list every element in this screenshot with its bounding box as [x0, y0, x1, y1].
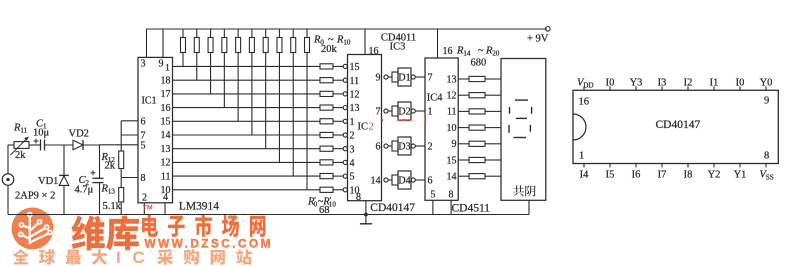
svg-text:I: I — [116, 248, 121, 266]
watermark: dianzi shichang wang — [142, 215, 158, 237]
svg-text:VD2: VD2 — [69, 129, 89, 140]
wire to display — [485, 94, 501, 96]
wire to display — [485, 175, 501, 177]
pinout bottom tick 3 — [635, 164, 637, 168]
wire IC1 output row 4 — [173, 107, 321, 109]
svg-text:4: 4 — [163, 192, 168, 203]
resistor R16 680 — [469, 109, 485, 114]
decoder IC4 CD4511 box — [425, 58, 458, 200]
svg-text:12: 12 — [161, 158, 171, 169]
signal source circle — [2, 174, 14, 186]
IC2 output bubble — [384, 75, 388, 79]
IC2 pin 16 wire — [364, 29, 366, 55]
inverter D3 — [392, 141, 398, 151]
pinout top tick 3 — [635, 86, 637, 90]
svg-text:Y1: Y1 — [734, 169, 747, 180]
watermark: dzsc logo circle — [12, 208, 54, 250]
svg-text:D2: D2 — [398, 107, 410, 118]
wire to display — [485, 78, 501, 80]
svg-text:IC: IC — [358, 122, 369, 133]
svg-text:3: 3 — [350, 144, 355, 155]
wire IC1 output row 2 — [173, 79, 321, 81]
svg-text:2: 2 — [350, 131, 355, 142]
svg-text:I0: I0 — [606, 77, 615, 88]
wire IC1 output row 6 — [173, 134, 321, 136]
IC4 pin 8 ground wire — [450, 200, 452, 214]
wire to display — [485, 159, 501, 161]
IC2 input bubble pin 11 — [343, 78, 347, 82]
inverter D2 — [392, 106, 398, 116]
resistor R'2 68 — [320, 91, 333, 96]
svg-text:18: 18 — [161, 75, 171, 86]
svg-text:15: 15 — [350, 62, 360, 73]
capacitor C1 10u — [40, 140, 42, 151]
svg-text:TM: TM — [143, 204, 153, 211]
IC2 output bubble — [384, 109, 388, 113]
svg-text:1: 1 — [428, 107, 433, 118]
svg-text:7: 7 — [428, 73, 433, 84]
IC2 input bubble pin 4 — [343, 160, 347, 164]
svg-text:8: 8 — [356, 192, 361, 203]
IC4 pin 16 wire — [437, 29, 439, 58]
svg-text:14: 14 — [447, 172, 457, 183]
pinout bottom tick 8 — [765, 164, 767, 168]
resistor R11 adjustable 2k — [8, 144, 14, 146]
wire IC1 output row 7 — [173, 148, 321, 150]
resistor R9 pull-up 20k — [292, 29, 294, 38]
IC2 output bubble — [384, 178, 388, 182]
7-segment digit — [509, 100, 532, 137]
pinout bottom tick 7 — [739, 164, 741, 168]
resistor R2 pull-up 20k — [196, 29, 198, 38]
svg-text:I8: I8 — [684, 169, 693, 180]
svg-text:D4: D4 — [398, 176, 410, 187]
svg-text:9: 9 — [452, 139, 457, 150]
svg-text:Y3: Y3 — [630, 77, 643, 88]
resistor R18 680 — [469, 141, 485, 146]
resistor R10 pull-up 20k — [306, 29, 308, 38]
wire D1 to IC4 — [415, 76, 425, 78]
svg-text:2k: 2k — [105, 161, 116, 172]
svg-text:680: 680 — [471, 58, 487, 69]
IC2 output bubble — [384, 144, 388, 148]
wire IC1 output row 1 — [173, 65, 321, 67]
resistor R4 pull-up 20k — [223, 29, 225, 38]
svg-text:VD1: VD1 — [38, 176, 58, 187]
pinout bottom tick 2 — [609, 164, 611, 168]
inverter D1 — [392, 72, 398, 82]
IC2 input bubble pin 12 — [343, 92, 347, 96]
IC1 pin 6 stub — [121, 120, 138, 122]
svg-text:1: 1 — [165, 63, 170, 73]
svg-text:10: 10 — [447, 123, 457, 134]
pinout top tick 6 — [713, 86, 715, 90]
pinout top tick 4 — [661, 86, 663, 90]
svg-text:I6: I6 — [632, 169, 641, 180]
svg-text:Y0: Y0 — [760, 77, 773, 88]
pinout top tick 7 — [739, 86, 741, 90]
wire D2 to IC4 — [415, 110, 425, 112]
diode VD1 2AP9x2 — [63, 145, 65, 176]
svg-text:WWW.DZSC.COM: WWW.DZSC.COM — [145, 237, 273, 251]
svg-text:Y2: Y2 — [708, 169, 721, 180]
resistor R20 680 — [469, 174, 485, 179]
+9V supply rail — [146, 28, 547, 30]
resistor R'9 68 — [320, 187, 333, 192]
resistor R15 680 — [469, 93, 485, 98]
resistor R1 pull-up 20k — [182, 29, 184, 38]
svg-text:D1: D1 — [398, 73, 410, 84]
resistor R'3 68 — [320, 105, 333, 110]
IC1 pin 9 wire — [162, 29, 164, 57]
IC2 input bubble pin 2 — [343, 133, 347, 137]
resistor R'0 68 — [320, 64, 333, 69]
svg-text:12: 12 — [447, 91, 457, 102]
resistor R13 5.1k — [119, 188, 124, 203]
red dash marks near D2 — [382, 114, 425, 122]
display common cathode wire — [528, 200, 530, 214]
pinout top tick 2 — [609, 86, 611, 90]
IC1 pin 3 wire — [146, 29, 148, 57]
svg-text:8: 8 — [449, 190, 454, 201]
svg-text:2k: 2k — [15, 150, 26, 161]
wire D4 to IC4 — [415, 179, 425, 181]
svg-text:9: 9 — [159, 59, 164, 70]
ground symbol — [360, 223, 372, 225]
svg-text:I2: I2 — [684, 77, 693, 88]
svg-text:C: C — [133, 248, 145, 266]
svg-text:~: ~ — [478, 46, 484, 57]
watermark: weiku big characters — [71, 215, 104, 250]
svg-text:CD40147: CD40147 — [656, 119, 701, 131]
resistor R7 pull-up 20k — [265, 29, 267, 38]
resistor R'1 68 — [320, 78, 333, 83]
pinout top tick 5 — [687, 86, 689, 90]
wire IC1 output row 5 — [173, 120, 321, 122]
resistor R5 pull-up 20k — [237, 29, 239, 38]
svg-text:LM3914: LM3914 — [179, 201, 220, 213]
svg-text:I4: I4 — [580, 169, 589, 180]
IC4 pin 5 ground wire — [432, 200, 434, 214]
svg-text:9: 9 — [764, 95, 769, 106]
svg-text:1: 1 — [350, 117, 355, 128]
resistor R'5 68 — [320, 132, 333, 137]
IC2 input bubble pin 10 — [343, 188, 347, 192]
svg-text:IC1: IC1 — [142, 96, 157, 107]
resistor R6 pull-up 20k — [251, 29, 253, 38]
svg-text:16: 16 — [579, 96, 590, 107]
svg-text:2: 2 — [369, 122, 374, 133]
IC2 input bubble pin 15 — [343, 64, 347, 68]
svg-text:D3: D3 — [398, 142, 410, 153]
wire to display — [485, 110, 501, 112]
svg-text:14: 14 — [371, 176, 381, 187]
IC2 input bubble pin 13 — [343, 106, 347, 110]
svg-text:13: 13 — [350, 103, 360, 114]
svg-text:8: 8 — [141, 173, 146, 184]
IC1 pin 2 ground wire — [143, 203, 145, 215]
svg-text:I7: I7 — [658, 169, 667, 180]
svg-text:I3: I3 — [658, 77, 667, 88]
pinout bottom tick 1 — [583, 164, 585, 168]
wire IC1 output row 9 — [173, 175, 321, 177]
svg-text:3: 3 — [141, 59, 146, 70]
svg-text:IC3: IC3 — [390, 42, 406, 53]
svg-text:16: 16 — [443, 46, 453, 57]
svg-text:5: 5 — [431, 190, 436, 201]
svg-text:15: 15 — [447, 155, 457, 166]
svg-text:11: 11 — [447, 107, 457, 118]
resistor R19 680 — [469, 157, 485, 162]
wire IC1 output row 3 — [173, 93, 321, 95]
resistor R'4 68 — [320, 119, 333, 124]
capacitor C2 4.7u — [99, 145, 101, 178]
svg-text:1: 1 — [579, 151, 584, 162]
svg-text:7: 7 — [376, 107, 381, 118]
inverter D4 — [392, 175, 398, 185]
pinout bottom tick 6 — [713, 164, 715, 168]
pinout top tick 8 — [765, 86, 767, 90]
IC2 input bubble pin 3 — [343, 147, 347, 151]
svg-text:5: 5 — [141, 141, 146, 152]
svg-text:6: 6 — [141, 116, 146, 127]
svg-text:12: 12 — [350, 90, 360, 101]
svg-text:10μ: 10μ — [33, 128, 50, 139]
svg-text:11: 11 — [161, 171, 171, 182]
svg-text:I1: I1 — [710, 77, 719, 88]
diode VD2 — [73, 140, 83, 149]
svg-text:17: 17 — [161, 89, 171, 100]
svg-text:2AP9 × 2: 2AP9 × 2 — [15, 191, 55, 202]
svg-text:IC4: IC4 — [427, 93, 444, 104]
svg-text:6: 6 — [376, 142, 381, 153]
resistor R14 680 — [469, 76, 485, 81]
resistor R12 2k divider — [120, 121, 122, 151]
svg-text:2: 2 — [428, 142, 433, 153]
svg-text:20k: 20k — [321, 44, 338, 55]
svg-text:I5: I5 — [606, 169, 615, 180]
pinout top tick 1 — [583, 86, 585, 90]
svg-text:5: 5 — [350, 172, 355, 183]
IC2 input bubble pin 5 — [343, 174, 347, 178]
pinout bottom tick 5 — [687, 164, 689, 168]
svg-text:15: 15 — [161, 117, 171, 128]
svg-text:CD4511: CD4511 — [452, 203, 491, 215]
+9V terminal — [546, 27, 551, 32]
wire D3 to IC4 — [415, 145, 425, 147]
svg-text:14: 14 — [161, 130, 171, 141]
IC1 pin 4 ground wire — [164, 203, 166, 215]
svg-text:2: 2 — [142, 192, 147, 203]
ground rail — [8, 214, 529, 216]
svg-text:5.1k: 5.1k — [103, 201, 122, 212]
pinout bottom tick 4 — [661, 164, 663, 168]
svg-text:11: 11 — [350, 76, 360, 87]
resistor R'8 68 — [320, 174, 333, 179]
op-amp IC1 LM3914 box — [138, 57, 173, 202]
watermark: quanqiu zuida IC caigou wangzhan — [13, 249, 29, 264]
wire IC1 output row 10 — [173, 189, 321, 191]
svg-text:4: 4 — [350, 158, 355, 169]
svg-text:4.7μ: 4.7μ — [75, 185, 94, 196]
resistor R'6 68 — [320, 146, 333, 151]
svg-text:6: 6 — [428, 176, 433, 187]
IC1 pin 8 stub — [121, 177, 138, 179]
IC2 input bubble pin 1 — [343, 119, 347, 123]
svg-text:8: 8 — [764, 151, 769, 162]
IC1 pin 5 signal input wire — [100, 144, 139, 146]
svg-text:CD40147: CD40147 — [370, 202, 415, 214]
resistor R8 pull-up 20k — [278, 29, 280, 38]
7-segment display box — [501, 59, 546, 201]
svg-text:13: 13 — [161, 144, 171, 155]
gongyin common-cathode label — [513, 185, 524, 196]
resistor R3 pull-up 20k — [210, 29, 212, 38]
encoder IC2 CD40147 box — [348, 55, 382, 201]
svg-text:16: 16 — [369, 46, 379, 57]
resistor R17 680 — [469, 125, 485, 130]
resistor R'7 68 — [320, 160, 333, 165]
svg-text:9: 9 — [376, 73, 381, 84]
svg-text:I0: I0 — [736, 77, 745, 88]
wire IC1 output row 8 — [173, 161, 321, 163]
IC1 pin 7 stub — [121, 134, 138, 136]
svg-text:+ 9V: + 9V — [527, 34, 549, 45]
wire to display — [485, 143, 501, 145]
wire to display — [485, 127, 501, 129]
svg-text:13: 13 — [447, 74, 457, 85]
svg-text:16: 16 — [161, 103, 171, 114]
CD40147 pinout package — [573, 90, 778, 163]
